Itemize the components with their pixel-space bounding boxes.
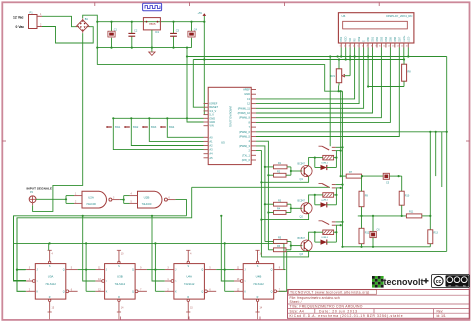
wire R11 up bbox=[429, 131, 431, 217]
svg-text:Q: Q bbox=[132, 290, 134, 293]
wires MCU to LCD data bbox=[256, 48, 390, 123]
svg-text:A3: A3 bbox=[209, 148, 213, 152]
svg-text:A0: A0 bbox=[209, 135, 213, 139]
transistor Q3 bbox=[298, 237, 313, 256]
svg-text:U6: U6 bbox=[342, 14, 346, 18]
resistors R3 R4 bbox=[264, 199, 303, 214]
wire clk drop FF2 bbox=[82, 215, 96, 281]
connector P1 bbox=[29, 11, 43, 29]
title block text row4 bbox=[290, 305, 363, 309]
resistor R11 bbox=[406, 211, 430, 218]
title block frame bbox=[288, 290, 470, 319]
svg-text:C2: C2 bbox=[134, 29, 138, 33]
wire LCD pin16 to rail1 bbox=[407, 48, 409, 58]
wire MCU pin6 from right drop bbox=[256, 131, 448, 133]
wire J1 stub bbox=[16, 269, 26, 271]
svg-text:4: 4 bbox=[353, 45, 354, 47]
svg-text:LED-: LED- bbox=[407, 36, 410, 42]
wire reset feed bbox=[193, 60, 203, 108]
relay K1 bbox=[315, 146, 337, 164]
svg-text:(PWM)_9: (PWM)_9 bbox=[239, 116, 251, 120]
svg-text:5: 5 bbox=[357, 45, 358, 47]
flip-flop U4A 74LS112 bbox=[165, 250, 217, 319]
svg-text:5_V: 5_V bbox=[209, 113, 214, 117]
wire preset rail bbox=[14, 242, 284, 244]
svg-text:3: 3 bbox=[348, 45, 349, 47]
svg-text:DB0: DB0 bbox=[367, 36, 370, 41]
diode D2 bbox=[314, 188, 338, 207]
svg-text:BC547: BC547 bbox=[298, 200, 306, 203]
svg-text:74LS112: 74LS112 bbox=[45, 282, 56, 286]
svg-text:(PWM)_3: (PWM)_3 bbox=[239, 144, 251, 148]
svg-text:DB3: DB3 bbox=[380, 36, 383, 41]
svg-text:(ARDUINO_UNO): (ARDUINO_UNO) bbox=[229, 106, 233, 127]
svg-text:U4A: U4A bbox=[186, 275, 192, 279]
svg-text:KiCad E.D.A. eeschema (2012-0: KiCad E.D.A. eeschema (2012-01-19 BZR 32… bbox=[290, 314, 404, 318]
wire MCU pin4 bus bbox=[256, 141, 268, 250]
svg-text:A5: A5 bbox=[209, 156, 213, 160]
wire clk drop FF3 bbox=[151, 215, 165, 281]
frame tick bottom 2 bbox=[188, 317, 190, 321]
svg-text:DB1: DB1 bbox=[372, 36, 375, 41]
wire clk drop FF4 bbox=[220, 215, 234, 281]
svg-text:74LS112: 74LS112 bbox=[184, 282, 195, 286]
node net176 dots bbox=[361, 175, 400, 177]
svg-text:tecnovolt: tecnovolt bbox=[384, 277, 424, 287]
wire right bundle A bbox=[340, 90, 342, 176]
wire P2 to gate inputs bbox=[36, 196, 74, 204]
svg-text:9: 9 bbox=[375, 45, 376, 47]
resistor R13 bbox=[428, 230, 439, 247]
resistors R1 R2 bbox=[264, 162, 303, 177]
wire Q2 to J3K3 bbox=[155, 243, 164, 291]
wire JK drop FF1 bbox=[17, 218, 26, 291]
svg-text:R10: R10 bbox=[405, 195, 410, 198]
svg-text:SW2: SW2 bbox=[133, 126, 139, 129]
wire Q3 to J4K4 bbox=[225, 243, 234, 291]
diode D1 bbox=[314, 151, 338, 170]
svg-text:10: 10 bbox=[379, 45, 381, 47]
wire Q1 collector bbox=[309, 158, 315, 166]
svg-text:DB2: DB2 bbox=[376, 36, 379, 41]
svg-text:12 Vac: 12 Vac bbox=[13, 15, 24, 19]
wire bridge minus down (signal gnd) bbox=[33, 33, 83, 211]
switch SW4 bbox=[160, 118, 203, 137]
wire Q1 emitter bbox=[260, 177, 308, 184]
svg-text:U3A: U3A bbox=[48, 275, 54, 279]
flip-flop U4B 74LS112 bbox=[234, 250, 286, 319]
resistor R10 bbox=[399, 191, 410, 216]
frame tick top bbox=[95, 2, 379, 6]
switch SW3 bbox=[142, 118, 203, 141]
svg-text:GND: GND bbox=[209, 120, 215, 124]
svg-text:Q: Q bbox=[63, 290, 65, 293]
wire Q2 link bbox=[147, 269, 157, 271]
wire Q2 emitter bbox=[260, 214, 308, 221]
wire signal line y176 bbox=[340, 175, 347, 177]
wire MCU pin5 from right drop2 bbox=[256, 48, 399, 137]
svg-text:LED+: LED+ bbox=[403, 35, 406, 42]
svg-text:2: 2 bbox=[344, 45, 345, 47]
wire line y251 bbox=[287, 250, 447, 252]
wire contrast line (y64.6) bbox=[97, 65, 342, 93]
svg-text:11: 11 bbox=[383, 45, 385, 47]
title block hyperlink box bbox=[289, 290, 377, 294]
svg-text:B1: B1 bbox=[85, 17, 89, 21]
svg-text:Size: A4: Size: A4 bbox=[290, 309, 305, 313]
wire LCD pin1 to rail1 bbox=[340, 48, 342, 58]
frame tick bottom 1 bbox=[120, 317, 122, 321]
svg-text:U4B: U4B bbox=[256, 275, 262, 279]
wire regulator gnd bbox=[151, 30, 153, 52]
wire net line2 J stub bbox=[16, 269, 26, 271]
svg-text:(PWM)_5: (PWM)_5 bbox=[239, 135, 251, 139]
node rail1 dots bbox=[329, 55, 356, 57]
resistor R9 bbox=[359, 176, 369, 216]
wire relay3 contacts bbox=[336, 221, 344, 227]
frame tick left bbox=[2, 140, 6, 142]
svg-text:Q: Q bbox=[63, 269, 65, 272]
wire Q4 up bbox=[284, 243, 286, 269]
svg-text:VSS: VSS bbox=[340, 36, 343, 41]
title block text row1 bbox=[290, 291, 370, 295]
wire rail1 right drop bbox=[446, 57, 448, 252]
title block text row5 bbox=[290, 309, 444, 313]
wire net line2 bbox=[17, 187, 192, 291]
wire U2B out bbox=[175, 200, 186, 216]
svg-text:P1: P1 bbox=[30, 11, 34, 15]
svg-text:VIN: VIN bbox=[209, 124, 213, 128]
wire P1 pin1 to bridge AC1 bbox=[42, 16, 77, 26]
svg-text:DB7: DB7 bbox=[398, 36, 401, 41]
wire bundle D bbox=[441, 132, 443, 187]
svg-text:R12: R12 bbox=[365, 232, 370, 235]
wire LCD pin3 to wiper bbox=[349, 48, 351, 76]
svg-text:U5: U5 bbox=[221, 141, 225, 145]
svg-text:R: R bbox=[257, 296, 259, 299]
transistor Q1 bbox=[298, 162, 313, 181]
svg-text:VO: VO bbox=[349, 38, 352, 42]
svg-text:0 Vac: 0 Vac bbox=[16, 25, 25, 29]
title block text row6 bbox=[290, 314, 446, 318]
wire LCD pin7 to R8 line bbox=[367, 48, 369, 87]
nand gate U2B bbox=[130, 191, 176, 208]
wire U3A preset link bbox=[48, 243, 50, 250]
wire relay2 contacts bbox=[336, 184, 344, 189]
frame tick bottom 3 bbox=[259, 317, 261, 321]
wire rail2 long (y59.5) bbox=[193, 58, 404, 60]
capacitor C3 bbox=[170, 22, 179, 48]
nand gate U2A bbox=[74, 191, 120, 208]
wire clk drop FF1 bbox=[14, 216, 27, 281]
svg-text:Sheet: /: Sheet: / bbox=[290, 300, 302, 304]
svg-text:cc: cc bbox=[436, 279, 442, 285]
svg-text:TECNOVOLT (www.tecnovolt.alter: TECNOVOLT (www.tecnovolt.altervista.org) bbox=[290, 291, 370, 295]
regulator U1 7805 bbox=[143, 18, 160, 35]
svg-text:DISPLAY_20X4_RC: DISPLAY_20X4_RC bbox=[386, 14, 412, 18]
wire 0V rail (bottom) bbox=[97, 47, 191, 49]
svg-text:+5V: +5V bbox=[198, 12, 203, 15]
wire Q1 to J2K2 bbox=[86, 243, 95, 291]
flip-flop U3A 74LS112 bbox=[26, 250, 78, 319]
wire VCC down to rails and 5V pin bbox=[203, 22, 206, 115]
wire Q3 link bbox=[216, 269, 226, 271]
svg-text:Q: Q bbox=[201, 269, 203, 272]
svg-text:BC547: BC547 bbox=[298, 162, 306, 165]
svg-text:13: 13 bbox=[392, 45, 394, 47]
svg-text:File: frequenzimetro arduino.s: File: frequenzimetro arduino.sch bbox=[290, 296, 340, 300]
label INPUT SEGNALE bbox=[27, 186, 53, 190]
svg-text:RS: RS bbox=[354, 38, 357, 42]
svg-text:15: 15 bbox=[401, 45, 403, 47]
svg-text:U3B: U3B bbox=[117, 275, 123, 279]
label 0 Vac bbox=[16, 25, 25, 29]
wire MCU pin2 bus bbox=[256, 151, 261, 257]
capacitor C4 bbox=[188, 22, 198, 48]
svg-text:1: 1 bbox=[340, 45, 341, 47]
wire R13 top bbox=[429, 216, 431, 230]
svg-text:R/W: R/W bbox=[358, 36, 361, 42]
wire Q3 emitter bbox=[261, 251, 308, 257]
frame tick right bbox=[466, 140, 470, 142]
svg-text:(PWM)_10: (PWM)_10 bbox=[238, 111, 251, 115]
svg-text:Q: Q bbox=[271, 290, 273, 293]
svg-text:6: 6 bbox=[362, 45, 363, 47]
capacitor C2 bbox=[128, 22, 137, 48]
tecnovolt logo icon bbox=[372, 276, 384, 288]
svg-text:(PWM)_11: (PWM)_11 bbox=[238, 106, 251, 110]
svg-text:Rev:: Rev: bbox=[437, 309, 444, 313]
svg-text:(RX)_0: (RX)_0 bbox=[242, 158, 251, 162]
node rail junctions bbox=[96, 21, 192, 49]
wire clk line1 bbox=[14, 216, 187, 281]
resistor R7 bbox=[346, 171, 383, 178]
resistors R5 R6 bbox=[265, 237, 302, 252]
svg-text:C3: C3 bbox=[176, 29, 180, 33]
svg-text:R11: R11 bbox=[409, 211, 414, 214]
transistor Q2 bbox=[298, 200, 313, 219]
wire U2A out to U2B in bbox=[120, 196, 130, 204]
wire relay feed drop bbox=[329, 57, 331, 147]
wire Q4bar right bbox=[279, 251, 287, 291]
svg-text:IC1: IC1 bbox=[155, 30, 160, 34]
tecnovolt logo text bbox=[384, 277, 429, 287]
wire C5 to R10 bbox=[401, 176, 403, 191]
svg-text:7: 7 bbox=[366, 45, 367, 47]
wire bundle C bbox=[435, 131, 437, 176]
svg-text:INPUT SEGNALE: INPUT SEGNALE bbox=[27, 186, 53, 190]
svg-text:SW3: SW3 bbox=[151, 126, 157, 129]
svg-text:A4: A4 bbox=[209, 152, 213, 156]
wire right bundle B bbox=[342, 91, 344, 247]
svg-text:16: 16 bbox=[406, 45, 408, 47]
svg-text:A1: A1 bbox=[209, 139, 213, 143]
diode D3 bbox=[314, 226, 338, 245]
wire GND down to MCU bbox=[186, 48, 204, 122]
svg-text:C4: C4 bbox=[194, 28, 198, 32]
svg-text:Id: 1/1: Id: 1/1 bbox=[437, 314, 446, 318]
creative commons logo bbox=[432, 275, 470, 288]
svg-text:Title: FREQUENZIMETRO CON ARDU: Title: FREQUENZIMETRO CON ARDUINO bbox=[290, 305, 363, 309]
node preset rail dots bbox=[49, 242, 226, 244]
svg-text:DB4: DB4 bbox=[385, 36, 388, 41]
relay K2 bbox=[315, 184, 337, 202]
svg-text:A2: A2 bbox=[209, 144, 213, 148]
wire MCU pin3 bus bbox=[256, 146, 265, 242]
wire mid line y216 bbox=[358, 215, 407, 217]
svg-text:12: 12 bbox=[388, 45, 390, 47]
trimmer RV1 bbox=[330, 58, 350, 85]
wire LCD pin15 to rail2 bbox=[403, 48, 405, 60]
svg-text:Q: Q bbox=[201, 290, 203, 293]
ground symbol (regulator) bbox=[149, 52, 155, 55]
wire P1 pin2 to bridge AC2 bbox=[42, 27, 93, 44]
wire SW rail bbox=[112, 117, 203, 119]
svg-text:14: 14 bbox=[397, 45, 399, 47]
wire +rail (top) bbox=[97, 21, 204, 23]
svg-text:RESET: RESET bbox=[209, 105, 218, 109]
svg-text:VDD: VDD bbox=[345, 36, 348, 41]
svg-text:SW4: SW4 bbox=[169, 126, 175, 129]
switch SW2 bbox=[124, 118, 203, 145]
capacitor C5 bbox=[383, 173, 402, 184]
label 12 Vac bbox=[13, 15, 24, 19]
wire Q3 collector bbox=[309, 232, 315, 240]
svg-text:8: 8 bbox=[371, 45, 372, 47]
bridge rectifier B1 bbox=[76, 17, 90, 33]
wire Q2 collector bbox=[309, 195, 315, 203]
connector P2 bbox=[29, 191, 36, 205]
svg-text:BC547: BC547 bbox=[298, 237, 306, 240]
svg-text:74LS112: 74LS112 bbox=[253, 282, 264, 286]
svg-text:R: R bbox=[118, 296, 120, 299]
logo square-wave badge bbox=[143, 3, 162, 11]
svg-text:SW1: SW1 bbox=[115, 126, 121, 129]
resistor R8 bbox=[402, 58, 412, 86]
svg-text:DB5: DB5 bbox=[389, 36, 392, 41]
svg-text:74LS112: 74LS112 bbox=[115, 282, 126, 286]
wire R8 bottom line bbox=[367, 85, 404, 87]
svg-text:74HC00: 74HC00 bbox=[86, 202, 96, 206]
svg-text:GND: GND bbox=[209, 116, 215, 120]
relay K3 bbox=[315, 221, 337, 239]
svg-text:R: R bbox=[49, 296, 51, 299]
svg-text:7805: 7805 bbox=[149, 22, 156, 26]
wire LCD pin2 to rail2 bbox=[345, 48, 347, 61]
svg-text:U2B: U2B bbox=[144, 196, 150, 200]
svg-text:Q: Q bbox=[132, 269, 134, 272]
flip-flop U3B 74LS112 bbox=[95, 250, 146, 319]
power VCC symbol bbox=[198, 12, 207, 23]
svg-text:IOREF: IOREF bbox=[209, 102, 217, 106]
switch SW1 bbox=[106, 118, 203, 149]
title block text row2 bbox=[290, 296, 340, 300]
wire relay1 contacts bbox=[336, 146, 344, 152]
svg-text:(TX)_1: (TX)_1 bbox=[242, 153, 250, 157]
wire bridge plus to top rail bbox=[83, 15, 98, 22]
svg-text:(PWM)_6: (PWM)_6 bbox=[239, 130, 251, 134]
svg-text:DB6: DB6 bbox=[394, 36, 397, 41]
resistor R12 bbox=[359, 216, 370, 247]
svg-text:3,3_V: 3,3_V bbox=[209, 109, 216, 113]
svg-text:RV1: RV1 bbox=[330, 75, 335, 78]
svg-text:74HC00: 74HC00 bbox=[142, 202, 152, 206]
svg-text:U2A: U2A bbox=[88, 196, 94, 200]
LCD display U6 bbox=[338, 13, 414, 43]
svg-text:GND: GND bbox=[244, 92, 250, 96]
microcontroller U5 ARDUINO_UNO bbox=[204, 87, 257, 164]
svg-text:R13: R13 bbox=[434, 232, 439, 235]
wire rail drop x97 bbox=[96, 22, 98, 65]
capacitor C1 bbox=[108, 22, 118, 48]
LCD pins bbox=[340, 35, 411, 48]
svg-text:C1: C1 bbox=[114, 28, 118, 32]
wire rail1 long (y56.5) bbox=[186, 55, 447, 57]
title block text row3 bbox=[290, 300, 302, 304]
svg-text:AREF: AREF bbox=[243, 88, 250, 92]
capacitor C6 bbox=[370, 216, 380, 247]
wire Q1 link bbox=[78, 269, 88, 271]
svg-text:R: R bbox=[187, 296, 189, 299]
svg-text:Date: 20 jun 2013: Date: 20 jun 2013 bbox=[319, 309, 358, 313]
wire gnd return line (y187) bbox=[192, 186, 330, 188]
svg-text:Q: Q bbox=[271, 269, 273, 272]
wire bottom line y247 bbox=[341, 246, 430, 248]
